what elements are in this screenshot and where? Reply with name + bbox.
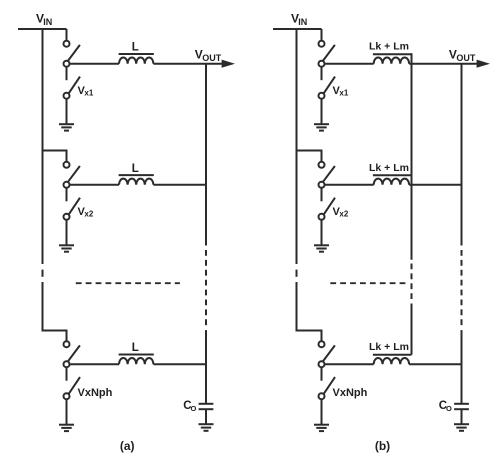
switch low-side phase 2 (a) xyxy=(64,188,81,220)
wire switch node phase 2 (a) xyxy=(70,184,120,186)
wire VOUT rail dashed (a) xyxy=(205,250,207,326)
label VxNph phase N (a) xyxy=(78,387,113,399)
ground phase 2 (b) xyxy=(314,245,329,251)
svg-text:x2: x2 xyxy=(339,210,348,219)
switch high-side phase 2 (a) xyxy=(64,162,80,188)
wire to ground phase 2 (b) xyxy=(321,220,323,246)
wire VIN bus (a) xyxy=(18,28,67,30)
label Lk + Lm phase N (b) xyxy=(369,341,409,353)
wire input rail lower + phase 3 feed (b) xyxy=(297,282,322,341)
wire switch node phase 1 (a) xyxy=(70,63,120,65)
svg-text:L: L xyxy=(132,163,139,175)
svg-text:VxNph: VxNph xyxy=(333,387,368,399)
wire inductor to VOUT phase 1 (a) xyxy=(153,63,222,65)
label Vx2 phase 2 (a) xyxy=(78,206,94,219)
wire input rail dash (b) xyxy=(296,270,298,277)
switch low-side phase 2 (b) xyxy=(319,188,336,220)
dashed ellipsis more phases (b) xyxy=(330,282,407,284)
wire phase 1 feed (b) xyxy=(321,29,323,41)
node VOUT (b) xyxy=(449,48,476,63)
svg-text:(b): (b) xyxy=(375,439,390,453)
svg-text:x1: x1 xyxy=(339,89,348,98)
svg-text:(a): (a) xyxy=(120,439,135,453)
svg-text:Lk + Lm: Lk + Lm xyxy=(369,41,409,53)
wire phase 2 branch (a) xyxy=(43,151,67,162)
core coupling line dashed (b) xyxy=(411,264,413,300)
arrow VOUT phase 1 (a) xyxy=(222,60,235,68)
label VxNph phase N (b) xyxy=(333,387,368,399)
svg-text:O: O xyxy=(446,404,452,413)
svg-text:L: L xyxy=(132,42,139,54)
wire VOUT rail lower (a) xyxy=(205,330,207,404)
label Vx1 phase 1 (b) xyxy=(333,85,349,98)
label Vx2 phase 2 (b) xyxy=(333,206,349,219)
svg-text:Lk + Lm: Lk + Lm xyxy=(369,162,409,174)
wire switch node phase N (b) xyxy=(325,363,374,365)
wire input rail lower + phase 3 feed (a) xyxy=(43,282,67,341)
wire inductor to VOUT rail phase 2 (a) xyxy=(153,184,206,186)
svg-text:Lk + Lm: Lk + Lm xyxy=(369,341,409,353)
wire input rail upper (b) xyxy=(296,28,298,264)
wire VOUT rail dashed (b) xyxy=(461,250,463,326)
inductor L phase N (a) xyxy=(119,355,154,365)
switch high-side phase 2 (b) xyxy=(319,162,335,188)
node VOUT (a) xyxy=(195,48,222,63)
svg-text:IN: IN xyxy=(43,17,52,27)
inductor Lk + Lm phase 2 (b) xyxy=(373,175,412,185)
switch low-side phase 1 (a) xyxy=(64,67,81,99)
switch low-side phase 1 (b) xyxy=(319,67,336,99)
wire VOUT rail upper (a) xyxy=(205,64,207,246)
wire to ground phase 1 (b) xyxy=(321,99,323,125)
core coupling line upper (b) xyxy=(411,53,413,260)
wire VOUT rail lower (b) xyxy=(461,330,463,404)
wire inductor to VOUT rail phase N (a) xyxy=(153,363,206,365)
node VIN (b) xyxy=(291,11,307,27)
wire switch node phase 2 (b) xyxy=(325,184,374,186)
ground phase 1 (a) xyxy=(59,124,74,130)
node VIN (a) xyxy=(36,11,52,27)
wire VOUT rail upper (b) xyxy=(461,64,463,246)
switch high-side phase N (b) xyxy=(319,341,335,367)
svg-text:OUT: OUT xyxy=(202,53,222,63)
caption (b) xyxy=(375,439,390,453)
wire to ground phase 2 (a) xyxy=(66,220,68,246)
wire inductor to VOUT phase 1 (b) xyxy=(409,63,477,65)
dashed ellipsis more phases (a) xyxy=(76,282,180,284)
svg-text:OUT: OUT xyxy=(456,53,476,63)
ground phase 1 (b) xyxy=(314,124,329,130)
wire switch node phase N (a) xyxy=(70,363,120,365)
label L phase N (a) xyxy=(132,342,139,354)
ground phase 2 (a) xyxy=(59,245,74,251)
ground CO (a) xyxy=(199,424,214,431)
capacitor CO (a) xyxy=(199,404,214,424)
wire inductor to VOUT rail phase N (b) xyxy=(409,363,461,365)
inductor L phase 2 (a) xyxy=(119,175,154,185)
wire to ground phase 1 (a) xyxy=(66,99,68,125)
core coupling line lower (b) xyxy=(411,304,413,355)
inductor L phase 1 (a) xyxy=(119,54,154,64)
wire to ground phase N (a) xyxy=(66,399,68,425)
switch low-side phase N (a) xyxy=(64,367,81,399)
wire phase 1 feed (a) xyxy=(66,29,68,41)
switch high-side phase N (a) xyxy=(64,341,80,367)
label CO (a) xyxy=(183,400,196,413)
ground CO (b) xyxy=(454,424,469,431)
wire switch node phase 1 (b) xyxy=(325,63,374,65)
capacitor CO (b) xyxy=(454,404,469,424)
svg-text:x1: x1 xyxy=(84,89,93,98)
wire phase 2 branch (b) xyxy=(297,151,322,162)
wire VIN bus (b) xyxy=(273,28,322,30)
wire input rail upper (a) xyxy=(42,28,44,264)
label L phase 1 (a) xyxy=(132,42,139,54)
label L phase 2 (a) xyxy=(132,163,139,175)
label CO (b) xyxy=(439,400,452,413)
label Lk + Lm phase 2 (b) xyxy=(369,162,409,174)
svg-text:O: O xyxy=(191,404,197,413)
label Lk + Lm phase 1 (b) xyxy=(369,41,409,53)
switch high-side phase 1 (b) xyxy=(319,41,335,67)
arrow VOUT phase 1 (b) xyxy=(477,60,490,68)
wire input rail dash (a) xyxy=(42,270,44,277)
wire to ground phase N (b) xyxy=(321,399,323,425)
svg-text:VxNph: VxNph xyxy=(78,387,113,399)
inductor Lk + Lm phase N (b) xyxy=(373,355,412,365)
switch high-side phase 1 (a) xyxy=(64,41,80,67)
svg-text:L: L xyxy=(132,342,139,354)
wire inductor to VOUT rail phase 2 (b) xyxy=(409,184,461,186)
svg-text:x2: x2 xyxy=(84,210,93,219)
switch low-side phase N (b) xyxy=(319,367,336,399)
svg-text:IN: IN xyxy=(298,17,307,27)
ground phase N (a) xyxy=(59,425,74,431)
caption (a) xyxy=(120,439,135,453)
ground phase N (b) xyxy=(314,425,329,431)
inductor Lk + Lm phase 1 (b) xyxy=(373,54,412,64)
label Vx1 phase 1 (a) xyxy=(78,85,94,98)
